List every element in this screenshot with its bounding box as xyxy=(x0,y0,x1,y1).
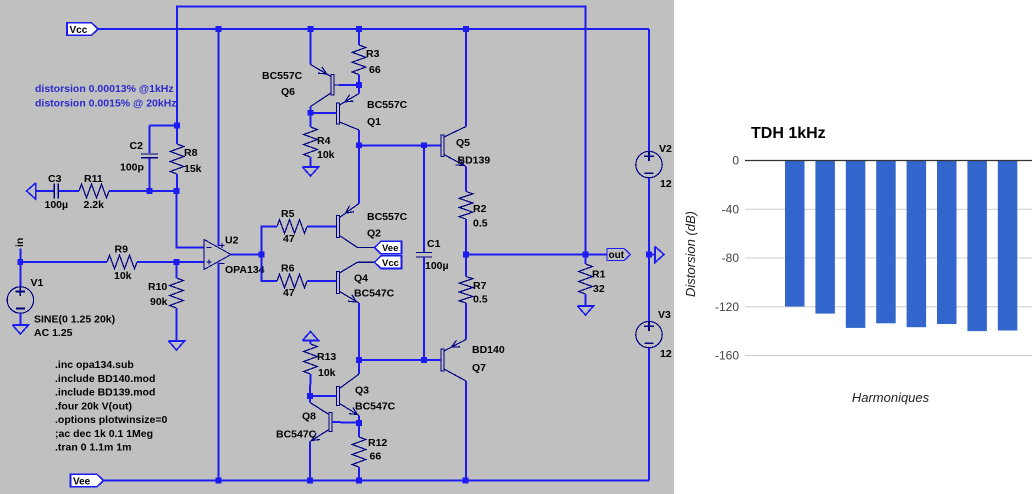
svg-text:-120: -120 xyxy=(715,300,739,314)
svg-text:Q7: Q7 xyxy=(472,362,486,374)
junction Q8 base / Q3 emitter / R12 xyxy=(356,420,362,426)
power flag Vee xyxy=(71,474,104,487)
x axis title Harmoniques xyxy=(852,390,930,405)
svg-text:R3: R3 xyxy=(366,48,380,60)
junction C1 top xyxy=(421,143,427,149)
svg-text:Harmoniques: Harmoniques xyxy=(852,390,930,405)
svg-text:V2: V2 xyxy=(659,143,672,155)
svg-text:R1: R1 xyxy=(592,269,606,281)
svg-text:Vee: Vee xyxy=(73,476,91,487)
svg-text:47: 47 xyxy=(283,233,295,245)
wire Vcc rail to V2 xyxy=(648,29,650,151)
wire to R5 xyxy=(262,227,278,255)
svg-text:Q6: Q6 xyxy=(281,86,295,98)
svg-text:100p: 100p xyxy=(120,162,144,174)
wire midpoint to V3 xyxy=(648,255,650,322)
svg-text:-40: -40 xyxy=(722,203,740,217)
wire global feedback loop (out node to R8/C2) xyxy=(177,7,586,255)
svg-text:R12: R12 xyxy=(368,437,387,449)
chart title TDH 1kHz xyxy=(751,125,826,142)
transistor Q3 BC547C (NPN) xyxy=(337,374,396,416)
wire U2 V- supply to Vee xyxy=(218,263,220,481)
svg-text:distorsion 0.0015% @ 20kHz: distorsion 0.0015% @ 20kHz xyxy=(35,98,177,110)
resistor R1 xyxy=(579,255,606,307)
comment distortion figures xyxy=(35,83,177,110)
wire Q8 collector to Q3 base node xyxy=(309,396,311,403)
wire C1 bottom lead xyxy=(423,257,425,360)
resistor R7 xyxy=(459,255,488,340)
svg-text:OPA134: OPA134 xyxy=(225,264,265,276)
net flag out xyxy=(607,249,631,262)
wire Q7 collector to Vee xyxy=(465,381,467,481)
junction Vee / U2 supply xyxy=(216,478,222,484)
wire R5 to Q2 base xyxy=(307,226,337,228)
bar harmonic 8 xyxy=(998,161,1018,331)
svg-text:C1: C1 xyxy=(427,238,441,250)
svg-text:R10: R10 xyxy=(148,281,167,293)
svg-text:.include BD140.mod: .include BD140.mod xyxy=(55,373,155,385)
svg-text:in: in xyxy=(14,238,26,247)
net label in xyxy=(14,238,26,262)
wire Q1 base to Q6 collector xyxy=(311,112,337,114)
svg-text:;ac dec 1k 0.1 1Meg: ;ac dec 1k 0.1 1Meg xyxy=(55,428,153,440)
bar harmonic 1 xyxy=(785,161,805,307)
svg-text:R4: R4 xyxy=(317,135,331,147)
svg-text:R6: R6 xyxy=(281,263,295,275)
svg-text:.tran 0 1.1m 1m: .tran 0 1.1m 1m xyxy=(55,442,131,454)
transistor Q2 BC557C (PNP) xyxy=(337,204,408,248)
svg-text:distorsion 0.00013% @1kHz: distorsion 0.00013% @1kHz xyxy=(35,83,174,95)
resistor R2 xyxy=(459,167,488,255)
wire Q6 emitter from Vcc xyxy=(310,29,312,65)
svg-text:C3: C3 xyxy=(48,173,62,185)
voltage source V1 xyxy=(7,262,115,339)
ground (R1) xyxy=(578,306,594,315)
svg-text:100µ: 100µ xyxy=(425,260,449,272)
svg-text:R11: R11 xyxy=(84,173,103,185)
y axis title Distorsion (dB) xyxy=(683,211,698,297)
wire R11 to feedback node xyxy=(109,190,177,192)
svg-text:Vcc: Vcc xyxy=(70,25,88,36)
svg-text:BC557C: BC557C xyxy=(262,70,303,82)
wire R6 to Q4 base xyxy=(307,280,337,282)
junction V2 / V3 midpoint xyxy=(646,252,652,258)
junction in / V1 / R9 xyxy=(18,259,24,265)
svg-text:100µ: 100µ xyxy=(45,199,69,211)
ground (R4) xyxy=(303,167,319,176)
svg-text:V3: V3 xyxy=(658,309,671,321)
junction R3 / Q6 base / Q1 emitter xyxy=(356,82,362,88)
svg-text:90k: 90k xyxy=(150,296,168,308)
bar harmonic 6 xyxy=(937,161,957,324)
voltage source V2 xyxy=(636,143,672,190)
bar harmonic 2 xyxy=(815,161,835,314)
svg-text:R8: R8 xyxy=(184,147,198,159)
svg-text:Vee: Vee xyxy=(382,243,398,254)
svg-text:Q2: Q2 xyxy=(367,228,381,240)
spice directives xyxy=(55,359,167,454)
junction Vcc / Q6 emitter xyxy=(308,26,314,32)
svg-text:32: 32 xyxy=(593,283,605,295)
svg-text:BC547C: BC547C xyxy=(355,401,396,413)
svg-text:0: 0 xyxy=(732,154,739,168)
junction out node / R1 xyxy=(583,252,589,258)
svg-text:out: out xyxy=(609,250,625,261)
wire Q5 collector to Vcc xyxy=(465,29,467,127)
junction Vcc / R3 xyxy=(356,26,362,32)
svg-text:BD140: BD140 xyxy=(472,344,505,356)
junction C2 / R11 xyxy=(147,188,153,194)
svg-text:47: 47 xyxy=(283,287,295,299)
svg-text:-80: -80 xyxy=(722,251,740,265)
svg-text:AC 1.25: AC 1.25 xyxy=(34,327,73,339)
svg-text:0.5: 0.5 xyxy=(473,218,488,230)
capacitor C2 xyxy=(120,126,158,192)
svg-text:-160: -160 xyxy=(715,349,739,363)
chart gridlines xyxy=(745,209,1032,355)
svg-text:Q8: Q8 xyxy=(302,411,316,423)
svg-text:0.5: 0.5 xyxy=(473,294,488,306)
svg-text:BC557C: BC557C xyxy=(367,99,408,111)
wire R9 to U2 non-inverting input xyxy=(137,261,204,263)
voltage source V3 xyxy=(636,309,672,360)
ground (C3 left, rotated) xyxy=(27,183,36,199)
svg-text:BC557C: BC557C xyxy=(367,211,408,223)
svg-text:.include BD139.mod: .include BD139.mod xyxy=(55,387,155,399)
svg-text:.four 20k V(out): .four 20k V(out) xyxy=(55,400,132,412)
svg-text:R7: R7 xyxy=(473,280,487,292)
svg-text:Q4: Q4 xyxy=(354,273,368,285)
wire U2 output xyxy=(231,254,262,256)
junction output node (R2/R7/out) xyxy=(463,252,469,258)
svg-text:U2: U2 xyxy=(225,235,239,247)
resistor R9 xyxy=(107,244,137,283)
chart y-axis labels xyxy=(715,154,739,363)
junction feedback node (R8/R11/U2 -in) xyxy=(174,188,180,194)
svg-text:R5: R5 xyxy=(281,208,295,220)
svg-text:Vcc: Vcc xyxy=(382,258,399,269)
wire driver node to Q7 base xyxy=(359,359,441,361)
op-amp U2 OPA134 xyxy=(204,235,265,277)
transistor Q4 BC547C (NPN) xyxy=(337,262,395,303)
ground (R10) xyxy=(169,341,185,350)
wire Q3 base xyxy=(310,395,337,397)
ground (R13 top, rotated 180) xyxy=(303,332,319,341)
junction driver node / Q4 emitter / Q3 collector xyxy=(356,357,362,363)
svg-text:12: 12 xyxy=(660,178,672,190)
junction Vee / Q7 collector xyxy=(463,478,469,484)
wire V3 to Vee rail xyxy=(648,348,650,481)
resistor R12 xyxy=(352,423,387,481)
resistor R4 xyxy=(304,113,335,167)
wire Q4 emitter down to driver node xyxy=(358,303,360,360)
transistor Q1 BC557C (PNP) xyxy=(337,85,408,130)
bar harmonic 7 xyxy=(967,161,987,331)
svg-text:2.2k: 2.2k xyxy=(84,199,105,211)
svg-text:BC547C: BC547C xyxy=(276,429,317,441)
wire Vee rail xyxy=(103,480,649,482)
svg-text:Q3: Q3 xyxy=(355,385,369,397)
svg-text:10k: 10k xyxy=(114,270,132,282)
svg-text:10k: 10k xyxy=(318,367,336,379)
ground (V1) xyxy=(12,325,28,334)
svg-text:R9: R9 xyxy=(115,244,129,256)
resistor R6 xyxy=(277,263,307,300)
capacitor C3 xyxy=(36,173,79,211)
junction feedback / R8 top xyxy=(174,123,180,129)
transistor Q6 BC557C (PNP, mirrored) xyxy=(262,65,359,107)
svg-text:15k: 15k xyxy=(184,163,202,175)
net flag Vee (Q2 collector) xyxy=(375,241,402,254)
svg-text:BC547C: BC547C xyxy=(354,288,395,300)
wire in node to R9 xyxy=(20,261,107,263)
svg-text:C2: C2 xyxy=(130,140,144,152)
resistor R10 xyxy=(148,262,183,341)
bar harmonic 3 xyxy=(846,161,866,328)
net flag Vcc (Q4 collector) xyxy=(375,256,402,269)
svg-text:Q1: Q1 xyxy=(367,116,381,128)
svg-text:BD139: BD139 xyxy=(458,155,491,167)
wire Vcc rail xyxy=(98,28,650,30)
wire to R6 xyxy=(262,255,278,282)
svg-text:R2: R2 xyxy=(473,203,487,215)
junction Vee / R12 xyxy=(356,478,362,484)
resistor R11 xyxy=(79,173,109,211)
junction Vcc / Q5 collector xyxy=(463,26,469,32)
wire VAS node to Q5 base xyxy=(359,144,441,146)
ground (V2/V3 midpoint, rotated) xyxy=(649,247,664,263)
svg-text:.inc opa134.sub: .inc opa134.sub xyxy=(55,359,134,371)
transistor Q8 BC547C (NPN, mirrored) xyxy=(276,403,332,442)
wire feedback node to U2 inverting input xyxy=(177,191,205,248)
svg-text:10k: 10k xyxy=(317,149,335,161)
wire C2 top xyxy=(150,125,178,127)
svg-text:66: 66 xyxy=(370,451,382,463)
wire V2 to midpoint xyxy=(648,178,650,255)
junction C1 bottom xyxy=(421,357,427,363)
svg-text:66: 66 xyxy=(369,64,381,76)
chart x-axis (0 dB) line xyxy=(745,160,1032,162)
resistor R3 xyxy=(352,29,381,85)
bar harmonic 4 xyxy=(876,161,896,323)
svg-text:Q5: Q5 xyxy=(456,137,470,149)
svg-text:.options plotwinsize=0: .options plotwinsize=0 xyxy=(55,414,167,426)
svg-text:R13: R13 xyxy=(317,351,336,363)
transistor Q5 BD139 (NPN) xyxy=(441,127,490,167)
power flag Vcc xyxy=(67,23,98,36)
bar harmonic 5 xyxy=(907,161,927,327)
junction U2 output / R5 / R6 xyxy=(259,252,265,258)
svg-text:TDH 1kHz: TDH 1kHz xyxy=(751,125,826,142)
wire Q6 collector down xyxy=(310,107,312,113)
junction Q3 base / R13 / Q8 collector xyxy=(307,393,313,399)
wire Q8 base to R12 node xyxy=(332,421,359,424)
junction Vee / Q8 emitter xyxy=(307,478,313,484)
wire output node to R1 xyxy=(466,254,586,256)
resistor R8 xyxy=(170,126,201,192)
junction R10 top xyxy=(174,259,180,265)
wire out node to out flag xyxy=(586,254,608,256)
resistor R5 xyxy=(277,208,307,245)
svg-text:12: 12 xyxy=(660,348,672,360)
junction Vcc / U2 supply xyxy=(216,26,222,32)
transistor Q7 BD140 (PNP) xyxy=(441,340,505,382)
wire C1 top lead xyxy=(423,145,425,252)
svg-text:SINE(0 1.25 20k): SINE(0 1.25 20k) xyxy=(34,314,115,326)
wire Q1 collector / Q2 emitter (VAS node) xyxy=(358,130,360,204)
capacitor C1 xyxy=(416,238,449,272)
resistor R13 xyxy=(304,341,337,397)
wire U2 V+ supply from Vcc xyxy=(218,29,220,246)
wire Q3 emitter to node xyxy=(358,416,360,424)
svg-text:Distorsion (dB): Distorsion (dB) xyxy=(683,211,698,297)
wire Q8 emitter to Vee xyxy=(309,442,311,481)
svg-text:V1: V1 xyxy=(31,277,44,289)
junction VAS node / Q5 base wire xyxy=(356,143,362,149)
wire Q3 collector up to driver node xyxy=(358,360,360,374)
junction Q1 base / Q6 collector / R4 xyxy=(308,110,314,116)
